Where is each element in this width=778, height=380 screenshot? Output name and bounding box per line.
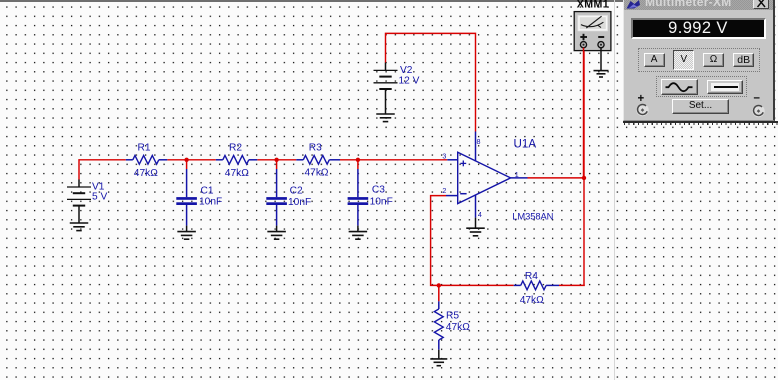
svg-text:4: 4 — [478, 210, 482, 219]
svg-text:R1: R1 — [138, 143, 151, 154]
svg-text:R2: R2 — [229, 143, 242, 154]
svg-text:R5: R5 — [446, 310, 459, 321]
svg-text:10nF: 10nF — [288, 197, 311, 208]
svg-text:47kΩ: 47kΩ — [305, 168, 329, 179]
svg-text:C3: C3 — [372, 184, 385, 195]
svg-text:U1A: U1A — [514, 138, 537, 151]
svg-text:LM358AN: LM358AN — [512, 210, 553, 221]
svg-text:12 V: 12 V — [399, 75, 420, 86]
svg-text:C2: C2 — [290, 186, 303, 197]
svg-text:2: 2 — [442, 186, 446, 195]
svg-text:R3: R3 — [309, 143, 322, 154]
svg-text:5 V: 5 V — [92, 191, 107, 202]
svg-text:47kΩ: 47kΩ — [225, 168, 249, 179]
svg-text:8: 8 — [477, 137, 481, 146]
svg-text:C1: C1 — [201, 186, 214, 197]
svg-text:XMM1: XMM1 — [577, 0, 609, 10]
svg-text:3: 3 — [442, 152, 446, 161]
svg-text:10nF: 10nF — [199, 196, 222, 207]
svg-text:1: 1 — [515, 170, 519, 179]
svg-text:47kΩ: 47kΩ — [134, 168, 158, 179]
svg-text:47kΩ: 47kΩ — [520, 295, 544, 306]
svg-text:10nF: 10nF — [370, 196, 393, 207]
svg-text:47kΩ: 47kΩ — [446, 322, 470, 333]
svg-text:R4: R4 — [525, 271, 538, 282]
